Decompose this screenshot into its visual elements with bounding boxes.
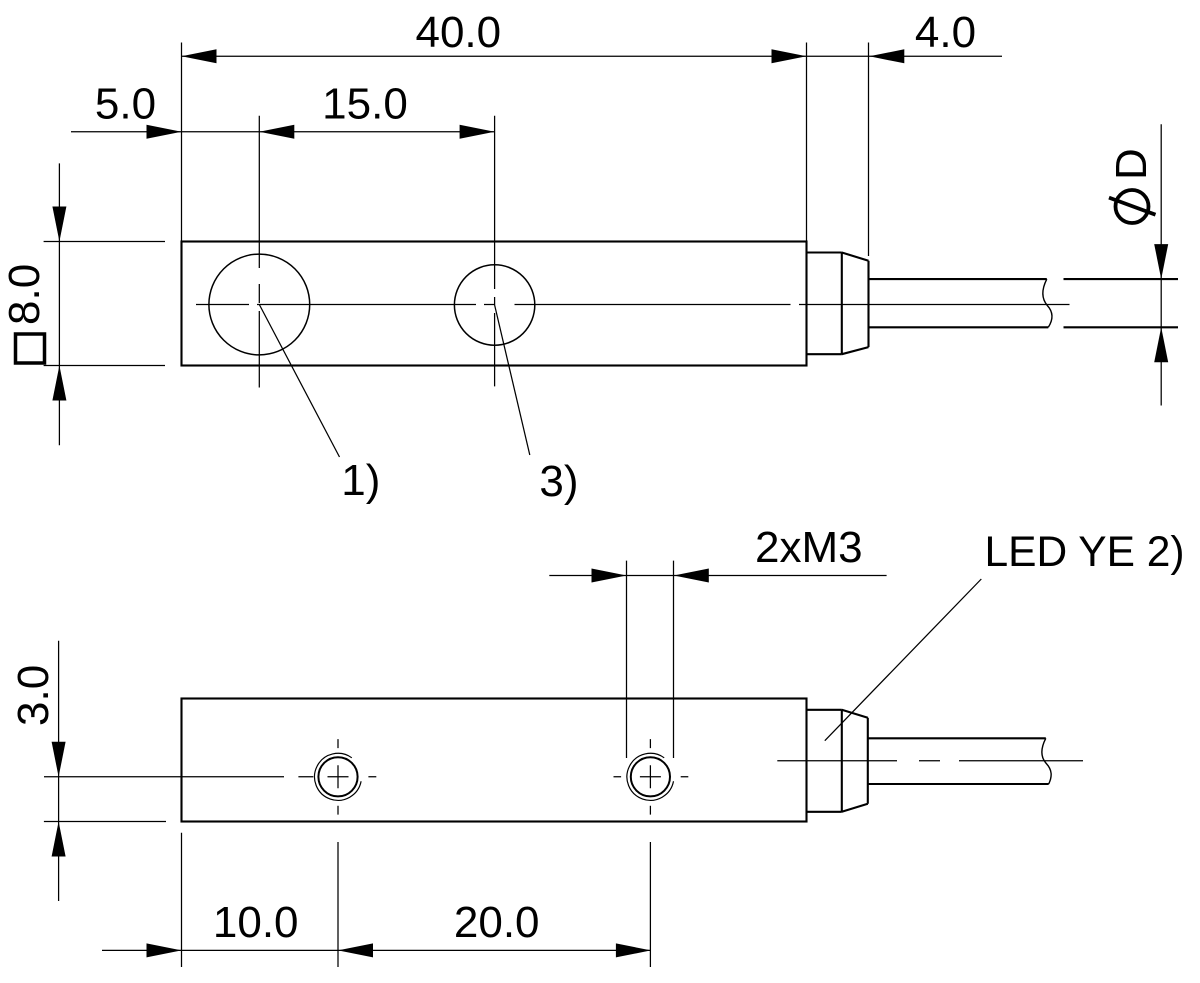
svg-text:3.0: 3.0 (9, 665, 58, 726)
svg-text:LED YE 2): LED YE 2) (985, 529, 1185, 576)
M3 hole 1 thread arc (315, 753, 362, 800)
arrow D bottom (1154, 327, 1168, 362)
arrow 15.0 left (259, 125, 294, 139)
arrow 5.0 (outside) (147, 125, 182, 139)
cable (top view) (869, 279, 1049, 327)
cable gland (top view) (807, 253, 869, 355)
arrow D top (1154, 244, 1168, 279)
extension line 2xM3 right (673, 561, 675, 758)
dimension 5.0 line (71, 131, 182, 133)
arrow 40.0 left (182, 49, 217, 63)
svg-text:15.0: 15.0 (322, 80, 408, 129)
hole 3 (sensing face) (454, 265, 534, 345)
arrow 2xM3 left (592, 569, 627, 583)
dimension 10.0/20.0 line (102, 949, 651, 951)
cable break (top view) (1043, 279, 1052, 327)
svg-text:40.0: 40.0 (415, 8, 501, 57)
leader line hole 3 (495, 305, 530, 455)
sensor body outline (bottom view) (182, 699, 807, 822)
arrow 40.0 right (772, 49, 807, 63)
horizontal centerline (top view) (196, 304, 1070, 306)
svg-text:D: D (1107, 148, 1156, 180)
cable gland (bottom view) (807, 710, 868, 812)
horizontal centerline (bottom view) (777, 760, 1083, 762)
extension line bottom body left (181, 833, 183, 967)
arrow 8.0 top (52, 207, 66, 242)
cable (bottom view) (868, 738, 1049, 784)
extension line M3 hole 2 down (649, 842, 651, 967)
vertical centerline hole 3 (494, 116, 496, 387)
square symbol of square-8.0 (16, 334, 45, 363)
extension line 3.0 bottom (44, 821, 166, 823)
extension line M3 hole 1 down (337, 842, 339, 967)
dimension 4.0 line (807, 55, 1003, 57)
M3 hole 1 inner circle (318, 757, 357, 796)
svg-text:4.0: 4.0 (915, 8, 976, 57)
dimension 40.0 line (182, 55, 807, 57)
hole 1 (sensing face) (209, 254, 310, 355)
extension line body left top (181, 43, 183, 242)
vertical centerline hole 1 (258, 116, 260, 388)
svg-text:5.0: 5.0 (95, 80, 156, 129)
arrow 10.0 left (outside) (147, 943, 182, 957)
dimension square 8.0 vertical line (58, 163, 60, 445)
M3 hole 2 thread arc (627, 753, 674, 800)
svg-text:10.0: 10.0 (213, 898, 299, 947)
extension line 2xM3 left (626, 561, 628, 758)
svg-text:2xM3: 2xM3 (755, 523, 863, 572)
diameter symbol circle (1116, 190, 1149, 223)
arrow 4.0 right (outside) (869, 49, 904, 63)
cable continuation after break (top view) (1064, 279, 1179, 327)
diameter symbol slash (1109, 198, 1156, 215)
svg-text:8.0: 8.0 (0, 264, 49, 325)
arrow 20.0 right (616, 943, 651, 957)
arrow 3.0 top (52, 742, 66, 777)
cable break (bottom view) (1042, 738, 1051, 784)
extension line gland right top (868, 43, 870, 257)
leader line LED (825, 579, 982, 741)
arrow 10.0 right (outside) (338, 943, 373, 957)
M3 hole 2 inner circle (631, 757, 670, 796)
arrow 3.0 bottom (52, 822, 66, 857)
extension line body right top (806, 43, 808, 242)
M3 hole 2 center mark (614, 739, 689, 815)
arrow 2xM3 right (674, 569, 709, 583)
arrow 8.0 bottom (52, 366, 66, 401)
dimension 2xM3 line (549, 575, 886, 577)
svg-text:3): 3) (539, 457, 578, 506)
svg-text:1): 1) (341, 456, 380, 505)
sensor body outline (top view) (182, 242, 807, 366)
hole axis line (bottom view left) (44, 776, 284, 778)
dimension 3.0 vertical line (58, 641, 60, 901)
extension line 8.0 top (44, 241, 165, 243)
dimension 15.0 line (182, 131, 495, 133)
leader line hole 1 (259, 305, 339, 458)
dimension D vertical line (1160, 124, 1162, 405)
extension line 8.0 bottom (44, 365, 165, 367)
M3 hole 1 center mark (298, 739, 376, 815)
svg-text:20.0: 20.0 (454, 898, 540, 947)
arrow 15.0 right (460, 125, 495, 139)
